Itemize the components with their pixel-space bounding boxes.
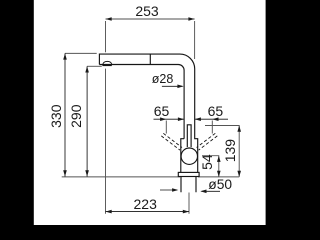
svg-text:330: 330: [48, 104, 64, 128]
svg-text:54: 54: [199, 154, 215, 170]
svg-text:253: 253: [135, 3, 159, 19]
svg-text:ø50: ø50: [208, 177, 232, 192]
svg-text:ø28: ø28: [152, 72, 174, 86]
svg-text:290: 290: [68, 104, 84, 128]
svg-text:139: 139: [222, 139, 238, 163]
svg-text:65: 65: [208, 103, 224, 119]
svg-text:65: 65: [154, 103, 170, 119]
svg-text:223: 223: [134, 196, 158, 212]
